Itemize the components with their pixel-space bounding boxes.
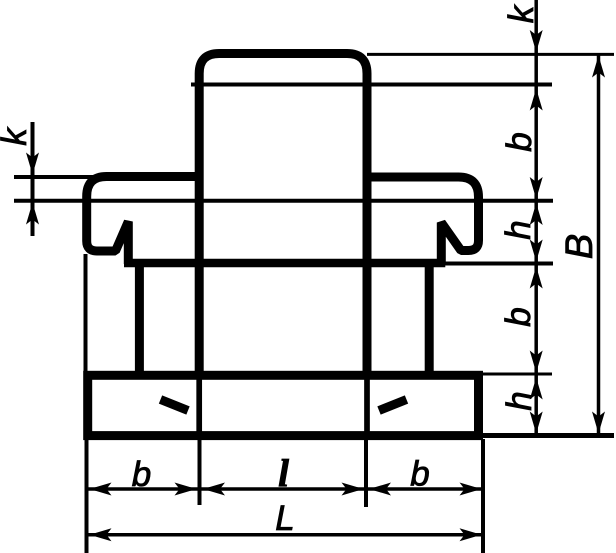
dimension B: top arrow bbox=[592, 56, 605, 78]
dimension k left: lower arrow bbox=[26, 203, 39, 225]
wire: extension line at ledge level right side (y=263) bbox=[444, 262, 553, 266]
wire: vertical extension below band left of centre panel (x=199.5) bbox=[198, 439, 202, 505]
band divider left (x=199) bbox=[196, 372, 202, 440]
wire: fold line across top tab (y=84.5) bbox=[191, 83, 552, 87]
wire: left extension line at ear-top level (y=176) bbox=[14, 175, 95, 179]
arrow right of b bottom-left bbox=[175, 483, 197, 496]
chain arrow down at tab top bbox=[530, 30, 543, 52]
wire: full-width fold line (y=200.7) bbox=[14, 199, 553, 203]
svg-text:k: k bbox=[0, 127, 34, 146]
chain arrow down at band bottom bbox=[530, 412, 543, 434]
chain arrow up at ledge bbox=[530, 267, 543, 289]
chain arrow down at band top bbox=[530, 351, 543, 373]
wire: left vertical extension between ear and band (x=87) bbox=[84, 254, 88, 373]
left leg (thick) bbox=[135, 263, 144, 377]
svg-text:B: B bbox=[559, 234, 601, 259]
arrow left of b bottom-left bbox=[90, 483, 112, 496]
dimension L: right arrow bbox=[460, 528, 482, 541]
bottom band outline (thick) bbox=[88, 375, 479, 435]
right ear flap outline (thick) bbox=[365, 177, 479, 264]
svg-text:b: b bbox=[410, 455, 429, 494]
dimension chain right: line bbox=[534, 0, 538, 437]
dimension L: left arrow bbox=[90, 528, 112, 541]
chain arrow down at ledge bbox=[530, 240, 543, 262]
left ear flap outline (thick) bbox=[87, 177, 201, 265]
ledge line between notches (thick) bbox=[124, 259, 445, 268]
wire: extension line at band-bottom level right side (y=435.5) bbox=[480, 433, 614, 438]
right leg (thick) bbox=[425, 263, 434, 377]
arrow right of l bbox=[342, 483, 364, 496]
chain arrow down at y200 bbox=[530, 177, 543, 199]
left glue tick in band bbox=[161, 400, 189, 411]
svg-text:l: l bbox=[278, 452, 289, 495]
dimension L: line bbox=[88, 533, 482, 537]
svg-text:b: b bbox=[499, 307, 538, 326]
wire: right vertical extension below band (x=483) bbox=[481, 439, 485, 553]
centre tab outline (thick) bbox=[199, 54, 367, 378]
svg-text:b: b bbox=[500, 132, 539, 151]
dimension B: bottom arrow bbox=[592, 412, 605, 434]
chain arrow up at fold line bbox=[530, 89, 543, 111]
svg-text:b: b bbox=[132, 455, 151, 494]
chain arrow up at band top bbox=[530, 378, 543, 400]
dimension line b / l / b at bottom bbox=[88, 487, 482, 491]
dimension B: line bbox=[597, 54, 601, 435]
dimension k left: upper arrow bbox=[26, 153, 39, 175]
dimension k left: line bbox=[31, 122, 35, 236]
right glue tick in band bbox=[379, 400, 407, 411]
arrow right of b bottom-right bbox=[460, 483, 482, 496]
svg-text:h: h bbox=[499, 220, 538, 239]
arrow left of l bbox=[203, 483, 225, 496]
arrow left of b bottom-right bbox=[369, 483, 391, 496]
wire: left vertical extension below band (x=87) bbox=[85, 439, 89, 553]
svg-text:k: k bbox=[502, 4, 541, 23]
wire: thin extension line at top right (y=54) bbox=[367, 53, 614, 56]
band divider right (x=367) bbox=[364, 372, 370, 440]
chain arrow up at y200 bbox=[530, 203, 543, 225]
wire: vertical extension below band right of centre panel (x=366) bbox=[364, 439, 368, 507]
wire: extension line at band-top level right side (y=374) bbox=[483, 373, 552, 376]
svg-text:h: h bbox=[500, 391, 539, 410]
svg-text:L: L bbox=[275, 499, 294, 538]
